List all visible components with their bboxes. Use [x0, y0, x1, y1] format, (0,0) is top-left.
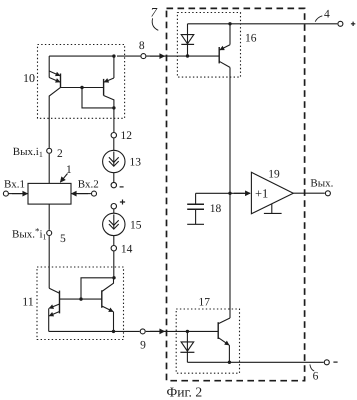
svg-text:16: 16	[245, 33, 257, 45]
svg-text:Вых.: Вых.	[310, 177, 333, 189]
svg-text:9: 9	[140, 340, 146, 352]
svg-text:14: 14	[121, 243, 133, 255]
svg-text:1: 1	[66, 164, 72, 176]
svg-text:15: 15	[130, 220, 142, 232]
svg-text:+1: +1	[255, 187, 268, 201]
svg-text:17: 17	[199, 297, 211, 309]
svg-text:6: 6	[313, 371, 319, 383]
svg-text:7: 7	[151, 5, 158, 20]
svg-text:5: 5	[60, 233, 66, 245]
svg-text:Вх.2: Вх.2	[78, 179, 99, 191]
svg-text:Вых.*i1: Вых.*i1	[12, 226, 47, 242]
svg-text:19: 19	[268, 168, 280, 180]
svg-text:8: 8	[139, 40, 145, 52]
svg-text:4: 4	[324, 8, 330, 20]
svg-text:11: 11	[22, 295, 34, 309]
svg-text:2: 2	[57, 148, 63, 160]
svg-text:12: 12	[121, 130, 133, 142]
svg-text:Вх.1: Вх.1	[4, 179, 25, 191]
svg-text:13: 13	[130, 157, 142, 169]
svg-text:10: 10	[23, 71, 35, 85]
svg-text:Вых.i1: Вых.i1	[13, 146, 43, 159]
svg-text:18: 18	[210, 203, 222, 215]
svg-text:Фиг. 2: Фиг. 2	[167, 385, 203, 400]
